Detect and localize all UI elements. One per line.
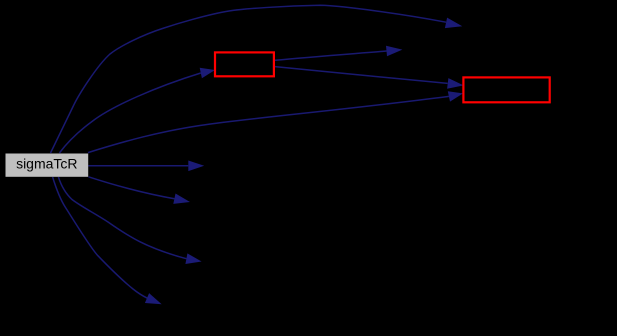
edge E5: sigmaTcR -> right horizontal target — [88, 165, 188, 167]
edge E7: sigmaTcR -> lower-right target 1 — [89, 177, 175, 199]
edge E8: sigmaTcR -> lower-right target 2 — [58, 177, 186, 259]
svg-text:sigmaTcR: sigmaTcR — [16, 156, 77, 172]
arrowhead A7 — [173, 194, 190, 204]
edge E9: sigmaTcR -> bottom target — [53, 177, 148, 298]
arrowhead A6 — [448, 91, 463, 101]
arrowhead A1 — [445, 18, 462, 29]
edge E4: red box 1 -> red box 2 (upper) — [275, 67, 448, 84]
edge E2: sigmaTcR -> red box 1 — [59, 73, 200, 153]
node sigmaTcR (current node, grey fill) — [6, 154, 89, 177]
edge E3: red box 1 -> upper-right target — [275, 51, 387, 60]
arrowhead A2 — [200, 68, 215, 78]
arrowhead A8 — [185, 253, 201, 264]
node red box 1 (truncated node) — [215, 52, 274, 76]
node red box 2 (truncated node) — [463, 77, 549, 102]
edge E1: sigmaTcR -> top node (off-palette), big arc — [51, 5, 447, 153]
arrowhead A9 — [145, 293, 162, 304]
edge E6: sigmaTcR -> red box 2 (lower) — [88, 96, 449, 152]
arrowhead A4 — [447, 78, 464, 89]
arrowhead A3 — [386, 46, 402, 57]
arrowhead A5 — [188, 160, 204, 171]
